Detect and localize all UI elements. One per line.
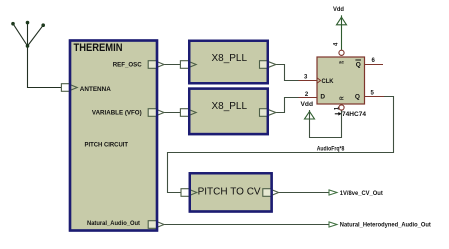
svg-text:Q: Q: [355, 94, 360, 101]
node antenna tip dots: [11, 21, 45, 48]
port REF_OSC (output): [148, 61, 164, 69]
svg-text:THEREMIN: THEREMIN: [74, 42, 123, 54]
wire PITCH TO CV out to 1V/8ve_CV_Out: [279, 192, 329, 194]
wire Natural_Audio_Out to Natural_Heterodyned_Audio_Out: [164, 224, 329, 226]
port ANTENNA (input): [61, 84, 77, 92]
wire antenna lines: [13, 23, 61, 88]
svg-text:PITCH TO CV: PITCH TO CV: [198, 185, 261, 197]
svg-text:Natural_Heterodyned_Audio_Out: Natural_Heterodyned_Audio_Out: [340, 222, 432, 229]
port VARIABLE (output): [148, 109, 164, 117]
power Vdd (lower): [305, 112, 315, 120]
svg-text:AudioFrq*8: AudioFrq*8: [317, 146, 345, 153]
clock triangle marker on U1: [317, 78, 320, 83]
port X8_PLL upper output: [260, 61, 276, 69]
pin 2 D stub: [299, 97, 318, 99]
svg-text:Natural_Audio_Out: Natural_Audio_Out: [87, 220, 141, 227]
border overdraw THEREMIN: [70, 41, 157, 231]
svg-text:VARIABLE (VFO): VARIABLE (VFO): [92, 109, 142, 116]
pin 5 Q stub: [365, 96, 384, 98]
wire Vdd to preset bubble (top): [341, 15, 343, 50]
border overdraw X8_PLL lower: [189, 89, 268, 135]
svg-text:REF_OSC: REF_OSC: [113, 61, 142, 68]
wire REF_OSC to X8_PLL upper: [164, 64, 180, 66]
svg-text:CLK: CLK: [322, 78, 334, 85]
port X8_PLL upper input: [180, 61, 196, 69]
wire X8_PLL upper out to CLK pin 3: [276, 65, 299, 81]
svg-text:1V/8ve_CV_Out: 1V/8ve_CV_Out: [340, 190, 384, 197]
svg-text:74HC74: 74HC74: [342, 111, 366, 118]
port PITCH TO CV input: [181, 189, 197, 197]
wire VARIABLE(VFO) to X8_PLL lower: [164, 112, 180, 114]
terminal 1V/8ve_CV_Out: [329, 190, 337, 195]
pin 4 preset bubble: [339, 50, 344, 55]
port PITCH TO CV output: [263, 189, 279, 197]
port Natural_Audio_Out (output): [148, 221, 164, 229]
pin 6 Qbar stub: [365, 64, 383, 66]
marker arrow before 74HC74: [335, 113, 339, 115]
svg-text:D: D: [320, 93, 325, 100]
svg-text:PITCH CIRCUIT: PITCH CIRCUIT: [85, 142, 129, 149]
wire clear pin to Vdd (bottom loop): [310, 110, 342, 138]
svg-text:ac: ac: [339, 60, 345, 65]
terminal Natural_Heterodyned_Audio_Out: [329, 222, 337, 227]
svg-text:Q: Q: [356, 62, 361, 69]
block PITCH TO CV: [190, 173, 272, 211]
svg-text:R: R: [340, 96, 346, 100]
port X8_PLL lower input: [180, 109, 196, 117]
block U2 X8_PLL (upper): [189, 41, 268, 84]
pin 3 CLK stub: [299, 80, 318, 82]
svg-text:ANTENNA: ANTENNA: [80, 86, 111, 93]
wire Q pin5 to AudioFrq*8 net into PITCH TO CV: [168, 97, 394, 193]
block U3 X8_PLL (lower): [189, 89, 268, 135]
block THEREMIN: [70, 41, 157, 231]
svg-text:X8_PLL: X8_PLL: [212, 100, 248, 112]
svg-text:X8_PLL: X8_PLL: [212, 52, 248, 64]
power Vdd (top): [337, 17, 347, 25]
flip-flop U1 74HC74 body: [317, 57, 365, 104]
wire X8_PLL lower out to D pin 2: [276, 98, 299, 113]
port X8_PLL lower output: [260, 109, 276, 117]
border overdraw X8_PLL upper: [189, 41, 268, 84]
svg-text:Vdd: Vdd: [333, 7, 344, 13]
svg-text:Vdd: Vdd: [301, 102, 314, 108]
pin 1 clear bubble: [339, 105, 344, 110]
border overdraw PITCH TO CV: [190, 173, 272, 211]
